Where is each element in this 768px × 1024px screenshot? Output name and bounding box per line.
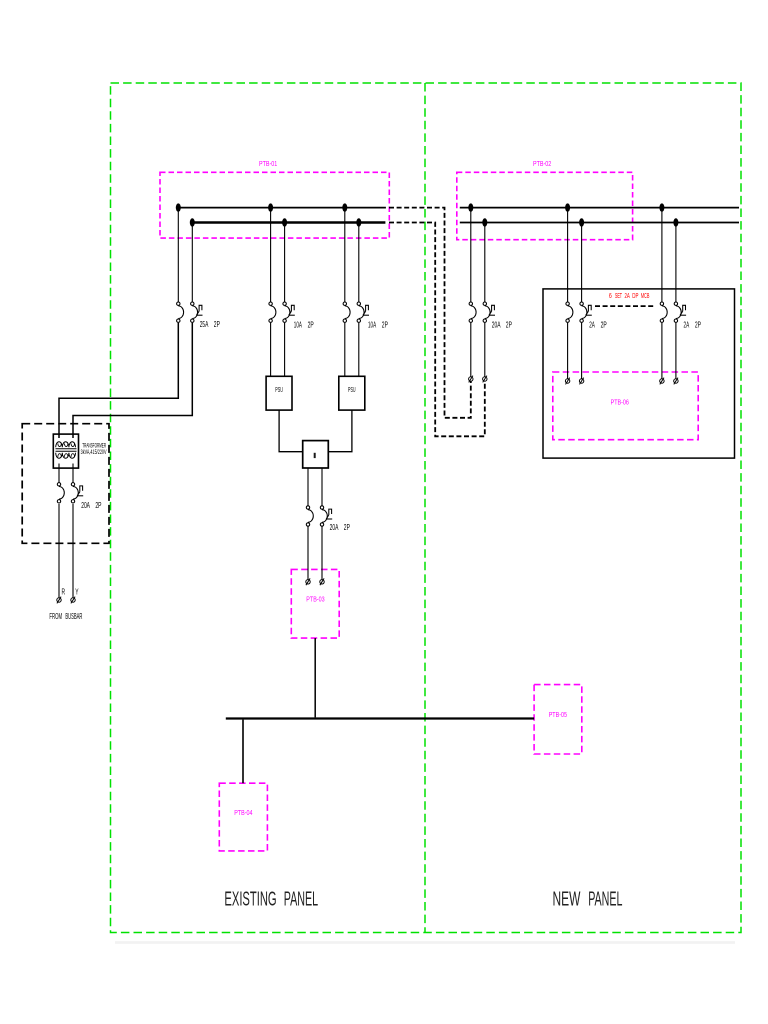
svg-text:20A: 20A (81, 502, 90, 510)
svg-text:PTB-05: PTB-05 (549, 711, 568, 719)
svg-text:NEW: NEW (553, 888, 581, 910)
svg-text:3kVA,415/220V: 3kVA,415/220V (81, 449, 107, 456)
svg-text:2A: 2A (589, 321, 595, 330)
svg-text:PSU: PSU (275, 387, 283, 395)
svg-text:PTB-03: PTB-03 (306, 596, 325, 604)
svg-text:Y: Y (75, 589, 79, 597)
svg-text:20A: 20A (492, 322, 501, 330)
svg-text:2P: 2P (344, 524, 351, 532)
svg-text:PANEL: PANEL (588, 888, 622, 910)
svg-text:SET: SET (615, 293, 622, 301)
svg-text:FROM: FROM (49, 613, 62, 622)
svg-text:10A: 10A (368, 321, 377, 330)
svg-text:25A: 25A (200, 321, 209, 329)
svg-text:10A: 10A (294, 321, 303, 330)
svg-text:2P: 2P (382, 322, 389, 330)
svg-text:PTB-04: PTB-04 (234, 809, 253, 817)
svg-text:2P: 2P (214, 321, 221, 329)
svg-text:BUSBAR: BUSBAR (65, 613, 82, 622)
svg-text:PTB-01: PTB-01 (259, 160, 278, 168)
svg-text:DP: DP (632, 292, 638, 301)
svg-text:2A: 2A (684, 321, 690, 330)
svg-text:PSU: PSU (348, 387, 356, 395)
svg-text:2P: 2P (308, 322, 315, 330)
svg-text:2A: 2A (625, 292, 631, 301)
svg-text:R: R (62, 589, 66, 597)
svg-text:PANEL: PANEL (284, 888, 318, 910)
svg-text:2P: 2P (695, 322, 702, 330)
svg-text:MCB: MCB (641, 292, 650, 301)
svg-text:2P: 2P (506, 322, 513, 330)
svg-text:2P: 2P (601, 322, 608, 330)
svg-text:6: 6 (609, 292, 612, 300)
svg-text:EXISTING: EXISTING (224, 888, 276, 910)
svg-text:2P: 2P (95, 502, 102, 510)
svg-text:PTB-06: PTB-06 (611, 399, 630, 407)
svg-text:PTB-02: PTB-02 (533, 160, 552, 168)
svg-text:20A: 20A (330, 524, 339, 532)
